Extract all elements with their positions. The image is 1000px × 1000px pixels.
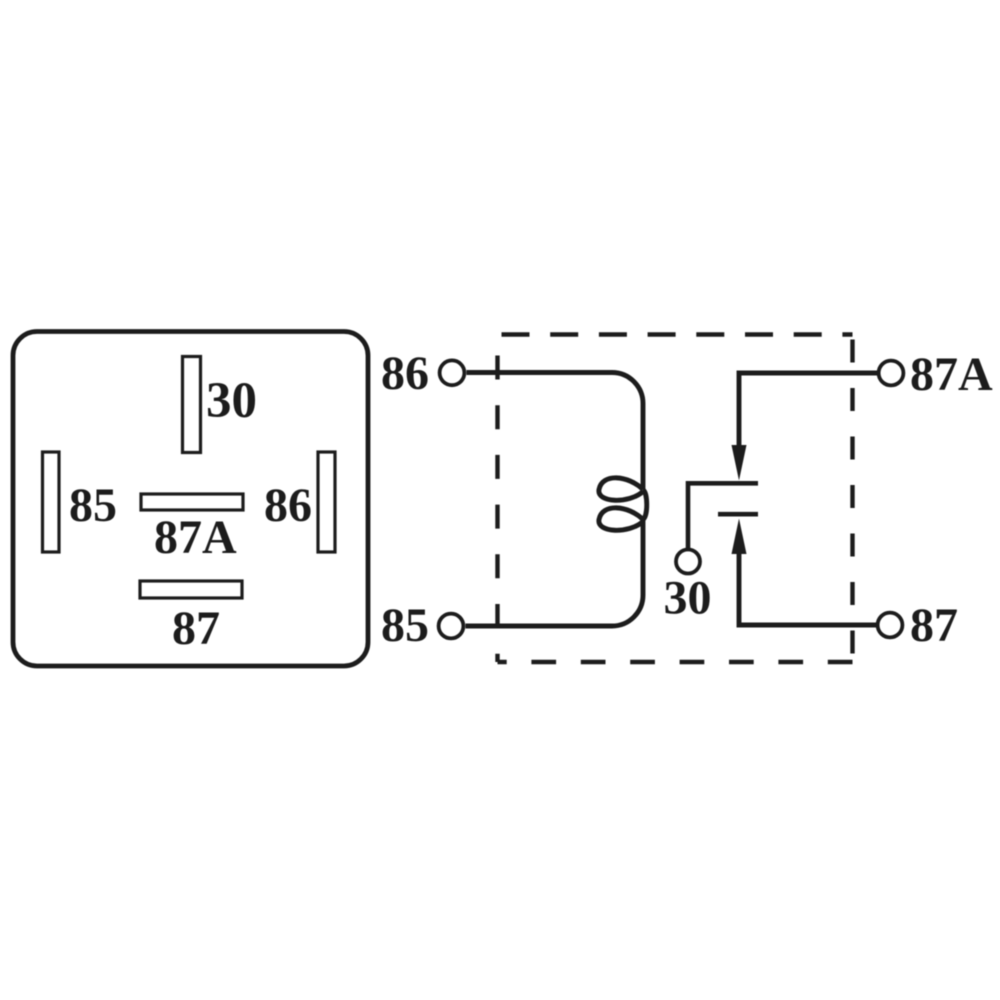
pin slot 87A (center horizontal blade)	[141, 494, 243, 510]
terminal circle 86	[440, 360, 465, 385]
coil L1 loop 2	[599, 508, 643, 530]
upper contact bar with stem to 30	[688, 483, 758, 549]
wire from 86 to coil top	[467, 373, 644, 490]
coil L1 right bump	[643, 490, 647, 520]
arrowhead up (NO contact)	[732, 519, 747, 555]
terminal circle 30	[676, 550, 700, 574]
svg-text:87A: 87A	[910, 348, 993, 401]
wire from 87A left and down	[739, 373, 879, 447]
svg-text:85: 85	[381, 599, 429, 652]
terminal circle 87A	[879, 361, 904, 386]
wire from 87 left and up	[739, 552, 878, 625]
svg-text:86: 86	[381, 347, 429, 400]
svg-text:87: 87	[172, 602, 220, 655]
arrowhead down (NC contact)	[732, 445, 747, 481]
dashed relay schematic box: top edge	[498, 332, 853, 336]
pin slot 85 (left vertical blade)	[43, 452, 60, 552]
dashed relay schematic box: right edge	[850, 335, 854, 663]
lower contact bar	[718, 512, 758, 517]
coil L1 loop 1	[599, 478, 643, 500]
dashed relay schematic box: left edge	[495, 335, 499, 663]
svg-text:87A: 87A	[154, 511, 237, 564]
terminal circle 87	[878, 613, 903, 638]
terminal circle 85	[439, 614, 464, 639]
pin slot 86 (right vertical blade)	[318, 452, 335, 552]
svg-text:85: 85	[69, 479, 117, 532]
svg-text:87: 87	[910, 599, 958, 652]
svg-text:86: 86	[264, 479, 312, 532]
dashed relay schematic box: bottom edge	[498, 660, 853, 664]
wire from coil bottom to 85	[466, 520, 644, 627]
svg-text:30: 30	[664, 572, 712, 625]
relay socket body outline	[13, 332, 368, 667]
pin slot 87 (lower horizontal blade)	[140, 581, 242, 598]
pin slot 30 (top vertical blade)	[183, 357, 201, 453]
svg-text:30: 30	[206, 373, 257, 429]
